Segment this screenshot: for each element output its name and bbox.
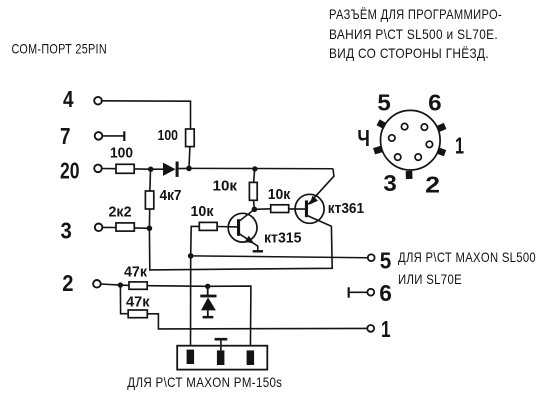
svg-text:кт315: кт315 bbox=[264, 231, 302, 247]
svg-text:47к: 47к bbox=[126, 295, 150, 311]
node A junction dot bbox=[186, 166, 192, 172]
svg-text:10к: 10к bbox=[191, 204, 215, 220]
terminal pin 6 (right) bbox=[367, 289, 374, 296]
connector box PM-150s bbox=[177, 346, 267, 370]
svg-text:100: 100 bbox=[110, 146, 133, 162]
wire node G down to R9 bbox=[120, 285, 128, 314]
socket hole (pin 5 pos) bbox=[401, 123, 407, 129]
key tab upper-left bbox=[377, 119, 387, 129]
svg-text:10к: 10к bbox=[213, 179, 238, 195]
svg-text:2к2: 2к2 bbox=[109, 205, 132, 221]
resistor R1 100 (vertical) bbox=[186, 129, 195, 147]
node F junction dot bbox=[188, 253, 194, 259]
svg-text:3: 3 bbox=[383, 170, 396, 196]
resistor R9 47k (lower) bbox=[128, 310, 147, 318]
node C junction dot (top of 10k) bbox=[252, 166, 257, 171]
stub end bar pin 7 bbox=[123, 131, 125, 141]
socket hole (pin 4 pos) bbox=[389, 135, 395, 141]
wire R8 to zener node H and down to box pin 3 bbox=[147, 286, 251, 351]
diode VD1 bbox=[163, 162, 179, 177]
box pin 2 (middle blade) bbox=[217, 350, 225, 365]
svg-text:ДЛЯ Р\СТ MAXON SL500: ДЛЯ Р\СТ MAXON SL500 bbox=[398, 249, 536, 265]
transistor Q2 KT361 bbox=[295, 169, 334, 224]
svg-text:5: 5 bbox=[380, 248, 392, 274]
svg-text:2: 2 bbox=[425, 172, 440, 198]
svg-text:ДЛЯ Р\СТ MAXON PM-150s: ДЛЯ Р\СТ MAXON PM-150s bbox=[127, 374, 282, 390]
wire pin3 to R5 bbox=[103, 226, 117, 228]
wire resistor R1 to node A bbox=[188, 147, 191, 169]
top rail node A to KT361 emitter corner bbox=[189, 167, 333, 169]
resistor R8 47k (upper) bbox=[129, 282, 147, 289]
wire R7 to KT315 base bbox=[217, 226, 237, 228]
terminal pin 1 (right) bbox=[367, 325, 374, 332]
terminal pin 4 bbox=[94, 97, 102, 105]
wire R7 left leg down to node F bbox=[191, 226, 200, 256]
stub pin 6 bbox=[350, 291, 368, 293]
svg-text:1: 1 bbox=[381, 316, 391, 342]
wire R3 to node D bbox=[253, 200, 256, 209]
wire node E down, bottom loop to KT361 collector bbox=[149, 215, 332, 270]
terminal pin 7 bbox=[95, 132, 103, 140]
wire node B to diode bbox=[151, 168, 164, 170]
terminal pin 20 bbox=[94, 165, 102, 173]
key tab upper-right bbox=[436, 123, 446, 132]
svg-text:кт361: кт361 bbox=[328, 201, 364, 217]
svg-text:20: 20 bbox=[60, 158, 80, 184]
socket hole (pin 3 pos) bbox=[395, 154, 401, 160]
rail node F to pin 5 bbox=[191, 256, 368, 258]
svg-text:6: 6 bbox=[428, 90, 442, 116]
node D junction dot bbox=[252, 207, 258, 213]
zener diode VD2 bbox=[200, 286, 216, 318]
wire R4 to KT361 base bbox=[289, 208, 305, 210]
key stem bbox=[220, 339, 222, 350]
socket hole (pin 6 pos) bbox=[421, 124, 427, 130]
svg-text:1: 1 bbox=[455, 133, 464, 159]
svg-text:РАЗЪЁМ ДЛЯ ПРОГРАММИРО-: РАЗЪЁМ ДЛЯ ПРОГРАММИРО- bbox=[329, 6, 502, 22]
node H junction dot bbox=[205, 284, 210, 289]
svg-text:ВАНИЯ Р\СТ SL500 и SL70E.: ВАНИЯ Р\СТ SL500 и SL70E. bbox=[329, 26, 498, 42]
resistor R6 4k7 (vertical) with wires from node B to node E bbox=[149, 169, 152, 191]
wire diode to node A bbox=[179, 167, 189, 169]
svg-text:СОМ-ПОРТ 25PIN: СОМ-ПОРТ 25PIN bbox=[12, 41, 108, 57]
key tab right bbox=[436, 147, 446, 156]
DIN connector face circle bbox=[381, 110, 441, 170]
key tab bottom bbox=[406, 171, 413, 179]
svg-text:5: 5 bbox=[377, 90, 391, 116]
stub pin 7 bbox=[102, 135, 124, 137]
wire pin4 to vertical resistor bbox=[102, 101, 191, 129]
svg-text:47к: 47к bbox=[124, 265, 148, 281]
svg-text:2: 2 bbox=[62, 270, 73, 296]
terminal pin 3 bbox=[95, 224, 103, 232]
wire node C down to R3 bbox=[254, 169, 255, 183]
svg-text:6: 6 bbox=[379, 280, 392, 306]
svg-text:3: 3 bbox=[61, 218, 72, 244]
resistor R4 10k (KT361 base) bbox=[271, 205, 289, 213]
wire pin20 to R2 bbox=[102, 168, 116, 170]
svg-text:10к: 10к bbox=[268, 187, 291, 203]
box pin 1 (left blade) bbox=[187, 350, 195, 364]
svg-text:Ч: Ч bbox=[357, 125, 370, 151]
node B junction dot bbox=[148, 167, 153, 172]
resistor R5 2k2 bbox=[116, 223, 134, 231]
key tab left bbox=[373, 146, 383, 155]
wire R9 to pin 1 rail bbox=[147, 314, 367, 329]
node E junction dot bbox=[147, 226, 153, 232]
wire R6 to node E bbox=[148, 209, 150, 228]
wire R5 to node E bbox=[134, 227, 149, 229]
wire node F down to connector box pin bbox=[190, 256, 192, 350]
svg-text:4: 4 bbox=[63, 86, 74, 112]
svg-text:ВИД СО СТОРОНЫ ГНЁЗД.: ВИД СО СТОРОНЫ ГНЁЗД. bbox=[329, 45, 489, 61]
wire node D to R4 bbox=[254, 208, 270, 211]
terminal pin 5 (right) bbox=[368, 254, 375, 261]
svg-text:7: 7 bbox=[60, 123, 71, 149]
svg-text:ИЛИ SL70E: ИЛИ SL70E bbox=[398, 271, 462, 287]
stub end bar pin 6 bbox=[348, 287, 350, 297]
svg-text:4к7: 4к7 bbox=[160, 188, 182, 204]
node G junction dot bbox=[118, 282, 123, 287]
box pin 3 (right blade) bbox=[247, 350, 255, 365]
socket hole (pin 1 pos) bbox=[426, 141, 432, 147]
transistor Q1 KT315 bbox=[228, 209, 263, 251]
socket hole (pin 2 pos) bbox=[415, 154, 421, 160]
terminal pin 2 bbox=[93, 280, 101, 288]
wire pin2 to node G bbox=[100, 284, 120, 285]
resistor R2 100 (pin 20) bbox=[116, 164, 134, 173]
key bar above middle blade bbox=[215, 338, 228, 341]
wire node G to R8 bbox=[120, 284, 129, 286]
svg-text:100: 100 bbox=[158, 128, 179, 144]
resistor R3 10k (vertical) bbox=[249, 182, 257, 200]
wire R2 to node B bbox=[134, 168, 151, 170]
resistor R7 10k (KT315 base) bbox=[199, 222, 217, 230]
